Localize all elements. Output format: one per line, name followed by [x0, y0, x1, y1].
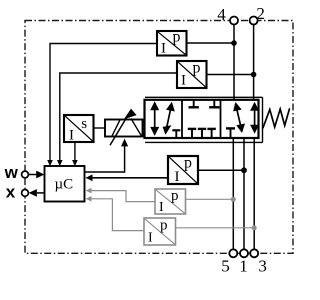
junction on port2 line — [251, 72, 257, 78]
wire port3 up — [253, 138, 255, 249]
cell2 bottom T 1 — [188, 129, 196, 138]
svg-text:4: 4 — [217, 5, 226, 24]
port 2 circle — [250, 17, 258, 25]
wire sensor1 left to uC — [50, 44, 157, 162]
arrow up into solenoid — [121, 139, 128, 147]
wire sensor1 right to port4 line — [187, 42, 235, 44]
svg-text:p: p — [160, 217, 168, 233]
microcontroller uC — [45, 166, 85, 202]
arrow into uC top 2 — [57, 160, 63, 166]
position sensor S — [64, 115, 94, 144]
svg-text:x: x — [6, 182, 16, 201]
arrow into uC right 2 gray — [86, 188, 92, 194]
port 5 circle — [229, 249, 237, 257]
cell3 diagonal double arrow — [233, 102, 245, 133]
svg-text:µC: µC — [55, 176, 74, 192]
pressure sensor U4 gray (port 5) — [155, 188, 186, 215]
cell2 top T left — [189, 101, 199, 108]
arrow X out of uC — [37, 192, 45, 194]
svg-text:I: I — [161, 41, 166, 57]
wire port4 down — [233, 25, 235, 100]
cell2 bottom T 3 — [207, 129, 215, 138]
arrow W into uC — [28, 174, 37, 176]
svg-text:p: p — [184, 154, 192, 171]
cell2 bottom T 2 — [198, 129, 206, 138]
cell1 diagonal double arrow — [163, 102, 175, 135]
cell3 vertical double arrow — [250, 102, 259, 134]
svg-text:2: 2 — [256, 4, 265, 23]
arrow into uC right 1 — [86, 174, 93, 181]
arrow into uC right 3 gray — [86, 196, 92, 202]
wire sensor2 right to port2 line — [207, 74, 254, 76]
wire s-sensor down to uC — [74, 142, 76, 161]
svg-text:w: w — [4, 163, 19, 182]
pressure sensor U3 (port 1) — [168, 154, 198, 185]
svg-text:p: p — [171, 188, 179, 204]
wire sensor3 right to port1 line — [198, 169, 244, 171]
output X circle — [22, 190, 29, 197]
junction gray on port5 line — [231, 197, 236, 202]
spring — [263, 108, 290, 128]
wire port1 up — [243, 138, 245, 249]
cell1 vertical double arrow — [150, 101, 159, 136]
junction gray on port3 line — [252, 225, 257, 230]
wire s-sensor right to solenoid — [94, 127, 106, 129]
port 4 circle — [230, 17, 238, 25]
svg-text:3: 3 — [258, 256, 267, 275]
wire sensor4 right to port5 line (gray) — [186, 198, 234, 200]
junction on port1 line — [241, 167, 247, 173]
cell2 top T right — [209, 101, 219, 108]
junction on port4 line — [231, 40, 237, 46]
svg-text:I: I — [175, 169, 180, 185]
port 1 circle — [240, 249, 248, 257]
pressure sensor U2 (port 2) — [177, 59, 207, 88]
svg-text:I: I — [181, 73, 186, 89]
wire port5 up — [232, 138, 234, 249]
wire sensor5 right to port3 line (gray) — [176, 227, 255, 229]
valve divider 1 — [181, 100, 183, 138]
wire sensor4 left to uC (gray) — [91, 191, 155, 202]
svg-text:I: I — [69, 128, 74, 144]
proportional solenoid — [105, 109, 143, 146]
svg-text:I: I — [159, 200, 164, 215]
arrow into uC top 3 — [72, 160, 78, 166]
wire uC output to solenoid — [85, 145, 125, 172]
wire port2 down — [253, 25, 255, 100]
wire sensor3 left to uC — [87, 177, 169, 179]
wire sensor5 left to uC (gray) — [91, 199, 144, 231]
input W circle — [22, 171, 29, 178]
svg-text:p: p — [193, 59, 201, 76]
valve body — [145, 100, 259, 138]
arrow into uC top 1 — [47, 160, 53, 166]
cell1 blocked port T — [172, 130, 180, 137]
pressure sensor U1 (port 4) — [157, 28, 187, 56]
svg-text:I: I — [148, 231, 153, 246]
port 3 circle — [250, 249, 258, 257]
svg-text:p: p — [173, 28, 181, 45]
wire sensor2 left to uC — [60, 73, 177, 161]
pressure sensor U5 gray (port 3) — [144, 217, 176, 245]
svg-text:s: s — [81, 116, 87, 132]
cell3 blocked port T — [226, 128, 235, 137]
valve proportional frame lines — [145, 96, 263, 98]
valve divider 2 — [220, 100, 222, 138]
enclosure dash-dot border — [25, 21, 293, 254]
svg-text:1: 1 — [239, 256, 248, 275]
svg-text:5: 5 — [221, 256, 230, 275]
